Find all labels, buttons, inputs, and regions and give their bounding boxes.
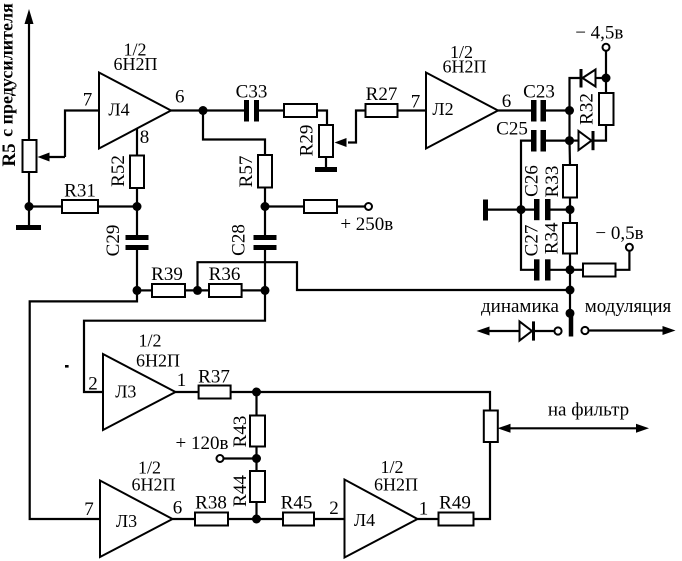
- triode L4 (lower): [345, 480, 418, 558]
- node R5 bottom: [25, 202, 34, 211]
- wire L2 output to C23: [498, 109, 531, 111]
- wire C25 to node: [546, 140, 570, 142]
- svg-text:C26: C26: [521, 165, 542, 197]
- wire R44 bottom: [255, 502, 257, 519]
- svg-text:R5: R5: [0, 143, 20, 166]
- wire +250 resistor to terminal: [337, 205, 365, 207]
- svg-text:+ 250в: + 250в: [340, 214, 393, 235]
- wire R33 to R34: [569, 198, 571, 224]
- terminal +120v: [217, 455, 224, 462]
- switch contact left: [554, 327, 561, 334]
- terminal -0.5v: [626, 244, 633, 251]
- wire node up to top diode: [570, 78, 580, 111]
- svg-text:R32: R32: [576, 93, 597, 125]
- svg-text:R49: R49: [439, 493, 471, 514]
- svg-text:динамика: динамика: [481, 296, 560, 317]
- svg-text:6: 6: [173, 498, 183, 519]
- resistor R32: [599, 93, 614, 125]
- svg-text:7: 7: [83, 90, 93, 111]
- resistor R39: [152, 284, 185, 297]
- wire R43 top lead: [255, 392, 257, 416]
- resistor (na filtr): [484, 411, 498, 443]
- potentiometer R29: [319, 125, 333, 157]
- T-bar terminal: [483, 200, 488, 221]
- svg-text:Л4: Л4: [108, 100, 129, 120]
- diode (bottom, to C25 node): [579, 131, 592, 150]
- capacitor C29: [126, 235, 149, 240]
- node C26 left: [517, 205, 526, 214]
- capacitor C23: [531, 100, 537, 122]
- capacitor C26: [534, 199, 540, 220]
- wire resistor to R29 top: [317, 111, 327, 126]
- wire node C25 to diode2: [570, 140, 579, 142]
- capacitor C33: [244, 100, 249, 122]
- stray mark: [65, 365, 69, 368]
- svg-text:R52: R52: [108, 155, 129, 187]
- svg-text:R36: R36: [209, 264, 241, 285]
- wire node C25 down to R33: [568, 141, 571, 165]
- node R57-+250: [261, 202, 270, 211]
- arrow R5 wiper: [38, 153, 50, 162]
- svg-text:на фильтр: на фильтр: [548, 400, 629, 421]
- wire R34 down to switch: [569, 254, 571, 316]
- svg-text:R31: R31: [64, 181, 96, 202]
- svg-text:Л2: Л2: [432, 99, 453, 119]
- wire R32 bottom to diode2: [595, 125, 607, 141]
- node C29-R39: [133, 286, 142, 295]
- svg-text:7: 7: [84, 499, 94, 520]
- svg-text:R45: R45: [281, 493, 313, 514]
- svg-text:Л3: Л3: [115, 382, 136, 402]
- svg-text:7: 7: [411, 92, 421, 113]
- wire T-bar to C26: [488, 209, 534, 211]
- svg-text:− 4,5в: − 4,5в: [575, 23, 623, 44]
- resistor R33: [563, 165, 577, 198]
- svg-text:6: 6: [175, 87, 185, 108]
- resistor R57: [258, 155, 272, 188]
- resistor R38: [195, 513, 228, 526]
- svg-text:1/2: 1/2: [138, 331, 161, 351]
- svg-text:R29: R29: [296, 125, 317, 157]
- svg-text:C29: C29: [103, 225, 124, 257]
- svg-text:R39: R39: [151, 264, 183, 285]
- wire node to +250 resistor: [265, 205, 304, 207]
- wire upper L3 output to R37: [176, 391, 199, 393]
- switch pole: [569, 315, 574, 337]
- node feedback tap: [566, 286, 575, 295]
- wire R31 to R52 node: [98, 205, 137, 207]
- wire R29 ground stub: [325, 157, 327, 167]
- node R31-R52: [133, 202, 142, 211]
- resistor R43: [250, 416, 265, 447]
- resistor R34: [563, 223, 577, 254]
- wire -0.5v terminal: [616, 251, 630, 270]
- svg-text:2: 2: [88, 374, 98, 395]
- node -4.5v rail: [602, 74, 611, 83]
- svg-text:R34: R34: [541, 222, 562, 254]
- svg-text:модуляция: модуляция: [585, 296, 672, 317]
- arrow input up: [25, 9, 34, 24]
- node L4 output: [199, 106, 208, 115]
- node R36-C28: [261, 286, 270, 295]
- terminal -4.5v: [603, 44, 610, 51]
- wire ground stub left: [28, 207, 30, 226]
- wire L4 output to R49: [418, 518, 439, 520]
- wire R57 bottom: [264, 188, 266, 207]
- node R34 bottom: [566, 265, 575, 274]
- triode L3 (lower): [100, 481, 173, 558]
- svg-text:R27: R27: [366, 84, 398, 105]
- wire feedback detour over R36: [198, 262, 571, 290]
- resistor (after C33): [284, 104, 317, 117]
- wire left L drop to lower L3 pin7: [30, 290, 137, 519]
- svg-text:C33: C33: [236, 82, 268, 103]
- wire R37 to right column: [231, 392, 490, 411]
- wire C27 to node: [551, 269, 571, 271]
- wire R29 wiper: [348, 111, 366, 143]
- svg-text:C23: C23: [523, 82, 555, 103]
- capacitor C25: [531, 130, 537, 152]
- wire R52 bottom: [136, 188, 138, 207]
- wire node to C28: [264, 207, 266, 236]
- svg-text:с предусилителя: с предусилителя: [0, 3, 17, 137]
- resistor R31: [62, 200, 98, 213]
- svg-text:6Н2П: 6Н2П: [443, 57, 487, 77]
- svg-text:C25: C25: [496, 119, 528, 140]
- wire input up-arrow line: [28, 22, 30, 140]
- arrow na filtr right: [636, 424, 649, 433]
- switch contact right: [581, 327, 588, 334]
- resistor R52: [130, 156, 144, 189]
- wire C29 bottom: [136, 250, 138, 290]
- wire top diode to rail: [596, 77, 607, 79]
- wire node to C29: [136, 207, 138, 236]
- arrow na filtr left: [498, 424, 511, 433]
- wire switch left arm: [486, 330, 520, 332]
- svg-text:6Н2П: 6Н2П: [136, 351, 180, 371]
- resistor R37: [199, 386, 231, 399]
- svg-text:1: 1: [419, 499, 429, 520]
- resistor R44: [250, 471, 265, 502]
- node R39-R36: [193, 286, 202, 295]
- wire R5 wiper line: [48, 156, 65, 158]
- arrow dinamika left: [477, 327, 490, 336]
- resistor R45: [283, 513, 314, 526]
- resistor (-0.5v): [583, 264, 616, 277]
- wire R39 left lead: [137, 289, 152, 291]
- node C25 out: [565, 136, 574, 145]
- svg-text:R33: R33: [542, 166, 563, 198]
- wire node R31 left: [29, 205, 62, 207]
- resistor R49: [439, 513, 474, 526]
- node switch top: [566, 309, 575, 318]
- terminal +250v: [365, 203, 372, 210]
- svg-text:− 0,5в: − 0,5в: [595, 223, 643, 244]
- node R37 out: [252, 388, 261, 397]
- resistor R36: [209, 284, 242, 297]
- svg-text:R38: R38: [195, 493, 227, 514]
- capacitor C28: [254, 235, 277, 240]
- wire node to -0.5v resistor: [570, 269, 583, 271]
- resistor R27: [366, 104, 398, 117]
- wire C25 left drop: [521, 141, 534, 270]
- resistor (+250v): [304, 200, 337, 213]
- svg-text:C27: C27: [521, 225, 542, 257]
- wire R49 to right column: [474, 442, 491, 519]
- wire R43 to R44: [255, 447, 257, 472]
- svg-text:6: 6: [502, 91, 512, 112]
- wire +120 terminal to node: [224, 457, 257, 459]
- triode L4 (top): [99, 73, 171, 149]
- svg-text:6Н2П: 6Н2П: [374, 475, 418, 495]
- svg-text:R43: R43: [230, 416, 251, 448]
- wire -4.5v rail: [605, 51, 607, 93]
- wire R45 to L4 pin2: [314, 518, 345, 520]
- wire R5 lower lead: [28, 172, 30, 207]
- node R38-R45: [252, 515, 261, 524]
- svg-text:R44: R44: [230, 475, 251, 507]
- svg-text:6Н2П: 6Н2П: [132, 475, 176, 495]
- node R33-R34: [566, 205, 575, 214]
- svg-text:+ 120в: + 120в: [176, 433, 229, 454]
- wire lower L3 output to R38: [173, 518, 196, 520]
- svg-text:Л4: Л4: [354, 510, 375, 530]
- node +120v: [252, 454, 261, 463]
- ground (left): [16, 225, 41, 230]
- svg-text:8: 8: [140, 127, 150, 148]
- triode L2: [426, 73, 498, 149]
- ground (under R29): [315, 167, 337, 172]
- wire pin8 L4: [136, 128, 138, 155]
- wire L4 output to C33: [171, 109, 244, 111]
- svg-text:C28: C28: [228, 224, 249, 256]
- svg-text:1: 1: [177, 370, 187, 391]
- wire pin2 path upper L3: [84, 290, 265, 392]
- svg-text:6Н2П: 6Н2П: [114, 54, 158, 74]
- svg-text:R57: R57: [236, 156, 257, 188]
- svg-text:2: 2: [329, 498, 339, 519]
- wire node C23 to node C25: [568, 111, 570, 141]
- wire C33 to resistor: [259, 109, 284, 111]
- wire R38 to R45: [228, 518, 283, 520]
- wire diode to left pole circle: [535, 330, 554, 332]
- wire C26 to R33 node: [551, 209, 571, 211]
- diode (dinamika): [520, 321, 533, 340]
- wire na filtr arrow line: [508, 427, 638, 429]
- wire R36 right lead: [242, 289, 265, 291]
- wire pin7 L4 jog: [65, 111, 99, 158]
- diode (top, to -4.5v): [580, 69, 583, 88]
- arrow modulyacia right: [663, 326, 676, 335]
- capacitor C27: [534, 259, 540, 280]
- svg-text:Л3: Л3: [116, 511, 137, 531]
- arrow R29 wiper: [335, 138, 347, 147]
- wire right pole circle to arrow: [590, 329, 667, 331]
- svg-text:R37: R37: [198, 367, 230, 388]
- wire C23 to node: [546, 109, 570, 111]
- wire R39 right lead: [185, 289, 209, 291]
- node C23 out: [565, 106, 574, 115]
- potentiometer R5: [23, 140, 37, 172]
- triode L3 (upper): [103, 354, 176, 430]
- wire R57 jog from L4 output: [203, 111, 265, 156]
- wire C28 bottom: [264, 250, 266, 290]
- wire R27 to pin7 L2: [398, 109, 427, 111]
